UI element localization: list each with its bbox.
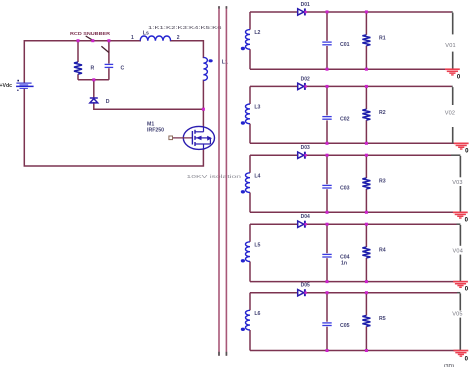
svg-text:V03: V03 xyxy=(452,180,463,186)
wire stage 4 left leads xyxy=(249,224,251,242)
node stage 3 cap bottom xyxy=(326,211,329,214)
node stage 1 cap bottom xyxy=(326,68,329,71)
svg-text:+Vdc: +Vdc xyxy=(0,83,12,89)
resistor R4 xyxy=(362,247,370,258)
node stage 3 res top xyxy=(365,154,368,157)
diode D01 xyxy=(298,9,304,15)
svg-text:2: 2 xyxy=(177,35,180,41)
diode D02 xyxy=(298,83,304,89)
svg-text:L2: L2 xyxy=(254,30,260,36)
svg-text:10KV isolation: 10KV isolation xyxy=(187,174,242,180)
node stage 2 res bottom xyxy=(365,142,368,145)
wire stage 5 resistor leads xyxy=(365,293,367,316)
ground 0 (stage 2) xyxy=(454,143,469,150)
inductor L2 (secondary winding) xyxy=(246,30,251,50)
wire stage 2 left leads xyxy=(249,86,251,104)
wire stage 3 bottom xyxy=(250,211,460,213)
inductor L5 (secondary winding) xyxy=(245,242,250,262)
resistor R3 xyxy=(362,178,370,189)
capacitor C03 xyxy=(322,184,331,186)
svg-text:1n: 1n xyxy=(341,261,347,267)
node stage 4 cap bottom xyxy=(326,280,329,283)
inductor Ls (leakage) xyxy=(140,36,170,41)
transistor M1 IRF250 (power MOSFET) xyxy=(147,122,214,150)
diode D05 xyxy=(298,290,304,296)
svg-text:1: 1 xyxy=(131,35,134,41)
wire snubber box right branch xyxy=(108,41,110,64)
wire stage 2 resistor leads xyxy=(365,86,367,109)
node: snubber right junction xyxy=(107,39,110,42)
node stage 5 cap top xyxy=(326,291,329,294)
wire stage 4 output (grey) xyxy=(459,225,461,246)
wire top-left from Vdc to snubber xyxy=(24,41,140,83)
wire snubber box bottom xyxy=(78,79,109,81)
transformer core line 2 xyxy=(225,6,227,356)
capacitor C04 xyxy=(322,253,331,255)
wire from Ls to L1 top xyxy=(171,41,204,58)
inductor L4 (secondary winding) xyxy=(245,173,250,193)
diode D03 xyxy=(298,152,304,158)
capacitor C (snubber) xyxy=(105,63,114,65)
wire stage 3 left leads xyxy=(249,155,251,173)
svg-text:R4: R4 xyxy=(379,248,386,254)
svg-text:V02: V02 xyxy=(445,111,456,117)
svg-text:V04: V04 xyxy=(453,248,464,254)
svg-text:1:K1:K2:K3:K4:K5:K6: 1:K1:K2:K3:K4:K5:K6 xyxy=(148,25,222,31)
node stage 1 res top xyxy=(365,10,368,13)
node stage 2 cap top xyxy=(326,85,329,88)
wire stage 1 left leads xyxy=(249,12,251,30)
svg-text:D: D xyxy=(106,99,110,105)
wire stage 5 bottom xyxy=(250,350,460,352)
inductor L1 (primary) xyxy=(203,57,207,80)
ground 0 (stage 3) xyxy=(453,212,468,219)
svg-text:C02: C02 xyxy=(340,117,350,123)
inductor L6 (secondary winding) xyxy=(246,310,251,330)
capacitor C02 xyxy=(322,116,331,118)
wire left bottom from Vdc down and along bottom to MOSFET source xyxy=(24,89,203,166)
resistor R5 xyxy=(362,316,370,327)
wire stage 3 cap leads xyxy=(326,155,328,184)
wire stage 4 bottom xyxy=(250,281,460,283)
ground 0 (stage 4) xyxy=(453,281,468,288)
wire stage 1 resistor leads xyxy=(365,12,367,35)
wire snubber box left branch xyxy=(77,41,79,62)
node stage 4 res top xyxy=(365,223,368,226)
svg-text:R5: R5 xyxy=(379,316,386,322)
svg-text:R3: R3 xyxy=(379,179,386,185)
node stage 5 cap bottom xyxy=(326,349,329,352)
wire stage 2 top (left of diode) xyxy=(250,85,298,87)
svg-text:L4: L4 xyxy=(254,173,260,179)
wire stage 2 bottom xyxy=(250,142,455,144)
wire stage 1 top (left of diode) xyxy=(250,11,298,13)
wire stage 5 top (right of diode) xyxy=(305,292,457,294)
node stage 3 res bottom xyxy=(365,211,368,214)
node stage 2 res top xyxy=(365,85,368,88)
voltage source Vdc (battery) xyxy=(0,80,34,91)
node stage 4 res bottom xyxy=(365,280,368,283)
wire stage 1 output (grey) xyxy=(452,13,454,35)
svg-text:L6: L6 xyxy=(254,311,260,317)
svg-text:IRF250: IRF250 xyxy=(147,128,164,134)
svg-text:D01: D01 xyxy=(301,2,310,8)
capacitor C01 xyxy=(322,41,331,43)
svg-text:C01: C01 xyxy=(340,42,350,48)
wire stage 3 resistor leads xyxy=(365,155,367,178)
svg-text:C05: C05 xyxy=(340,323,350,329)
node stage 2 cap bottom xyxy=(326,142,329,145)
wire stage 3 top (left of diode) xyxy=(250,154,298,156)
wire stage 5 left leads xyxy=(249,293,251,311)
diode D (snubber clamp) xyxy=(93,80,95,98)
svg-text:D05: D05 xyxy=(301,283,310,289)
node stage 1 cap top xyxy=(326,10,329,13)
wire L1 bottom to drain node xyxy=(202,80,204,126)
wire stage 2 top (right of diode) xyxy=(305,85,452,87)
wire snubber diode bottom to drain node xyxy=(94,103,204,109)
wire stage 4 top (left of diode) xyxy=(250,223,298,225)
wire stage 2 cap leads xyxy=(326,86,328,115)
capacitor C05 xyxy=(322,322,331,324)
polarity dot L1 xyxy=(209,59,213,62)
node stage 4 cap top xyxy=(326,223,329,226)
node: drain junction xyxy=(202,108,205,111)
node stage 5 res top xyxy=(365,291,368,294)
svg-text:R: R xyxy=(91,66,95,72)
node: snubber leader junction xyxy=(91,39,94,42)
inductor L3 (secondary winding) xyxy=(245,104,250,124)
svg-text:V01: V01 xyxy=(445,43,456,49)
node stage 1 res bottom xyxy=(365,68,368,71)
svg-text:D02: D02 xyxy=(301,76,310,82)
svg-text:V05: V05 xyxy=(452,312,463,318)
svg-text:R1: R1 xyxy=(379,36,386,42)
svg-text:D04: D04 xyxy=(301,214,310,220)
resistor R2 xyxy=(362,109,370,120)
svg-text:D03: D03 xyxy=(301,145,310,151)
resistor R1 xyxy=(362,35,370,46)
wire stage 4 top (right of diode) xyxy=(305,223,457,225)
wire stage 5 top (left of diode) xyxy=(250,292,298,294)
node stage 5 res bottom xyxy=(365,349,368,352)
svg-text:Ls: Ls xyxy=(143,30,149,36)
wire stage 1 bottom xyxy=(250,68,453,70)
svg-text:L5: L5 xyxy=(254,242,260,248)
node: snubber left junction xyxy=(77,39,80,42)
svg-text:C: C xyxy=(121,66,125,72)
transformer core line 1 xyxy=(218,6,220,356)
svg-text:RCD SNUBBER: RCD SNUBBER xyxy=(70,31,111,36)
svg-text:C03: C03 xyxy=(340,186,350,192)
svg-text:L3: L3 xyxy=(254,105,260,111)
wire stage 5 output (grey) xyxy=(459,293,461,310)
node: snubber bottom / diode junction xyxy=(92,78,95,81)
wire stage 1 cap leads xyxy=(326,12,328,41)
ground 0 (stage 1) xyxy=(445,68,460,75)
wire stage 5 cap leads xyxy=(326,293,328,322)
wire stage 4 resistor leads xyxy=(365,224,367,247)
diode D04 xyxy=(298,221,304,227)
wire stage 3 top (right of diode) xyxy=(305,154,451,156)
wire stage 2 output (grey) xyxy=(452,87,454,105)
resistor R (snubber) xyxy=(74,62,82,74)
node stage 3 cap top xyxy=(326,154,329,157)
wire stage 4 cap leads xyxy=(326,224,328,253)
wire stage 3 output (grey) xyxy=(459,156,461,177)
wire stage 1 top (right of diode) xyxy=(305,11,452,13)
svg-text:R2: R2 xyxy=(379,110,386,116)
ground 0 (stage 5) xyxy=(454,350,469,357)
